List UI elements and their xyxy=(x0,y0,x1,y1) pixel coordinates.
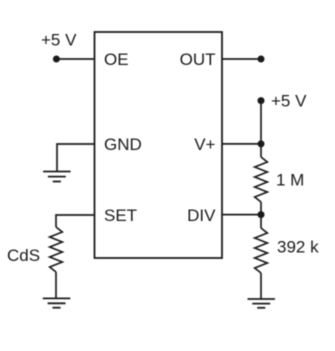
wire (+5V down to V+ node) xyxy=(260,101,262,144)
node dot (OUT) xyxy=(258,56,265,63)
svg-text:DIV: DIV xyxy=(187,206,216,225)
wire (OUT pin to output node) xyxy=(222,58,261,60)
wire (V+ node to 1M top) xyxy=(260,144,262,157)
wire (392k to ground) xyxy=(260,273,262,299)
resistor CdS (photocell) xyxy=(50,227,63,272)
wire (1M bottom to DIV node) xyxy=(260,202,262,215)
wire (V+ pin to rail) xyxy=(222,143,261,145)
ground (below CdS) xyxy=(43,298,71,307)
wire (DIV pin to rail) xyxy=(222,214,261,216)
svg-text:GND: GND xyxy=(104,135,142,154)
wire (GND pin left then down) xyxy=(57,144,95,172)
svg-text:+5 V: +5 V xyxy=(271,91,307,110)
node dot (left +5V at OE) xyxy=(53,56,60,63)
ground (below 392k) xyxy=(248,299,276,308)
svg-text:OUT: OUT xyxy=(180,50,216,69)
wire (OE pin to +5V node) xyxy=(56,58,94,60)
svg-text:CdS: CdS xyxy=(7,246,40,265)
svg-text:392 k: 392 k xyxy=(277,237,319,256)
wire (CdS to ground) xyxy=(55,272,57,298)
resistor R1 1M xyxy=(255,157,268,202)
node dot (DIV junction) xyxy=(258,211,265,218)
ground (GND pin) xyxy=(43,172,71,182)
resistor R2 392k xyxy=(255,228,268,273)
wire (DIV node to 392k top) xyxy=(260,215,262,228)
svg-text:1 M: 1 M xyxy=(276,171,304,190)
IC U1 (light-to-frequency converter, body) xyxy=(95,32,223,258)
node dot (right +5V) xyxy=(258,97,265,104)
svg-text:+5 V: +5 V xyxy=(41,31,77,50)
svg-text:OE: OE xyxy=(104,50,129,69)
svg-text:V+: V+ xyxy=(194,135,215,154)
svg-text:SET: SET xyxy=(104,206,137,225)
node dot (V+ junction) xyxy=(258,140,265,147)
wire (SET pin left then down to CdS) xyxy=(56,215,95,227)
